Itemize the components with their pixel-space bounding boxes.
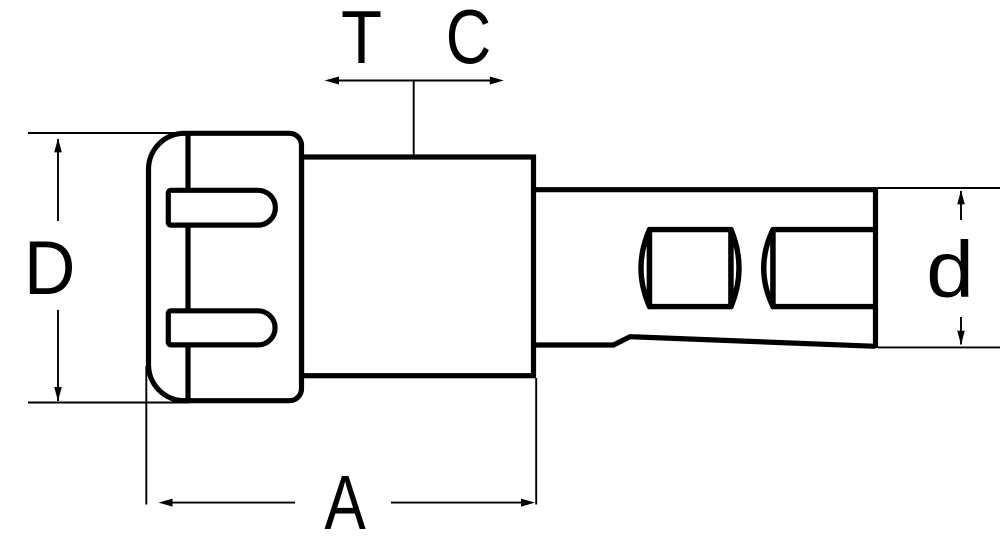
- svg-text:C: C: [446, 0, 491, 80]
- svg-text:T: T: [341, 0, 382, 80]
- svg-text:D: D: [24, 225, 75, 311]
- svg-text:A: A: [324, 460, 366, 546]
- svg-text:d: d: [926, 225, 974, 314]
